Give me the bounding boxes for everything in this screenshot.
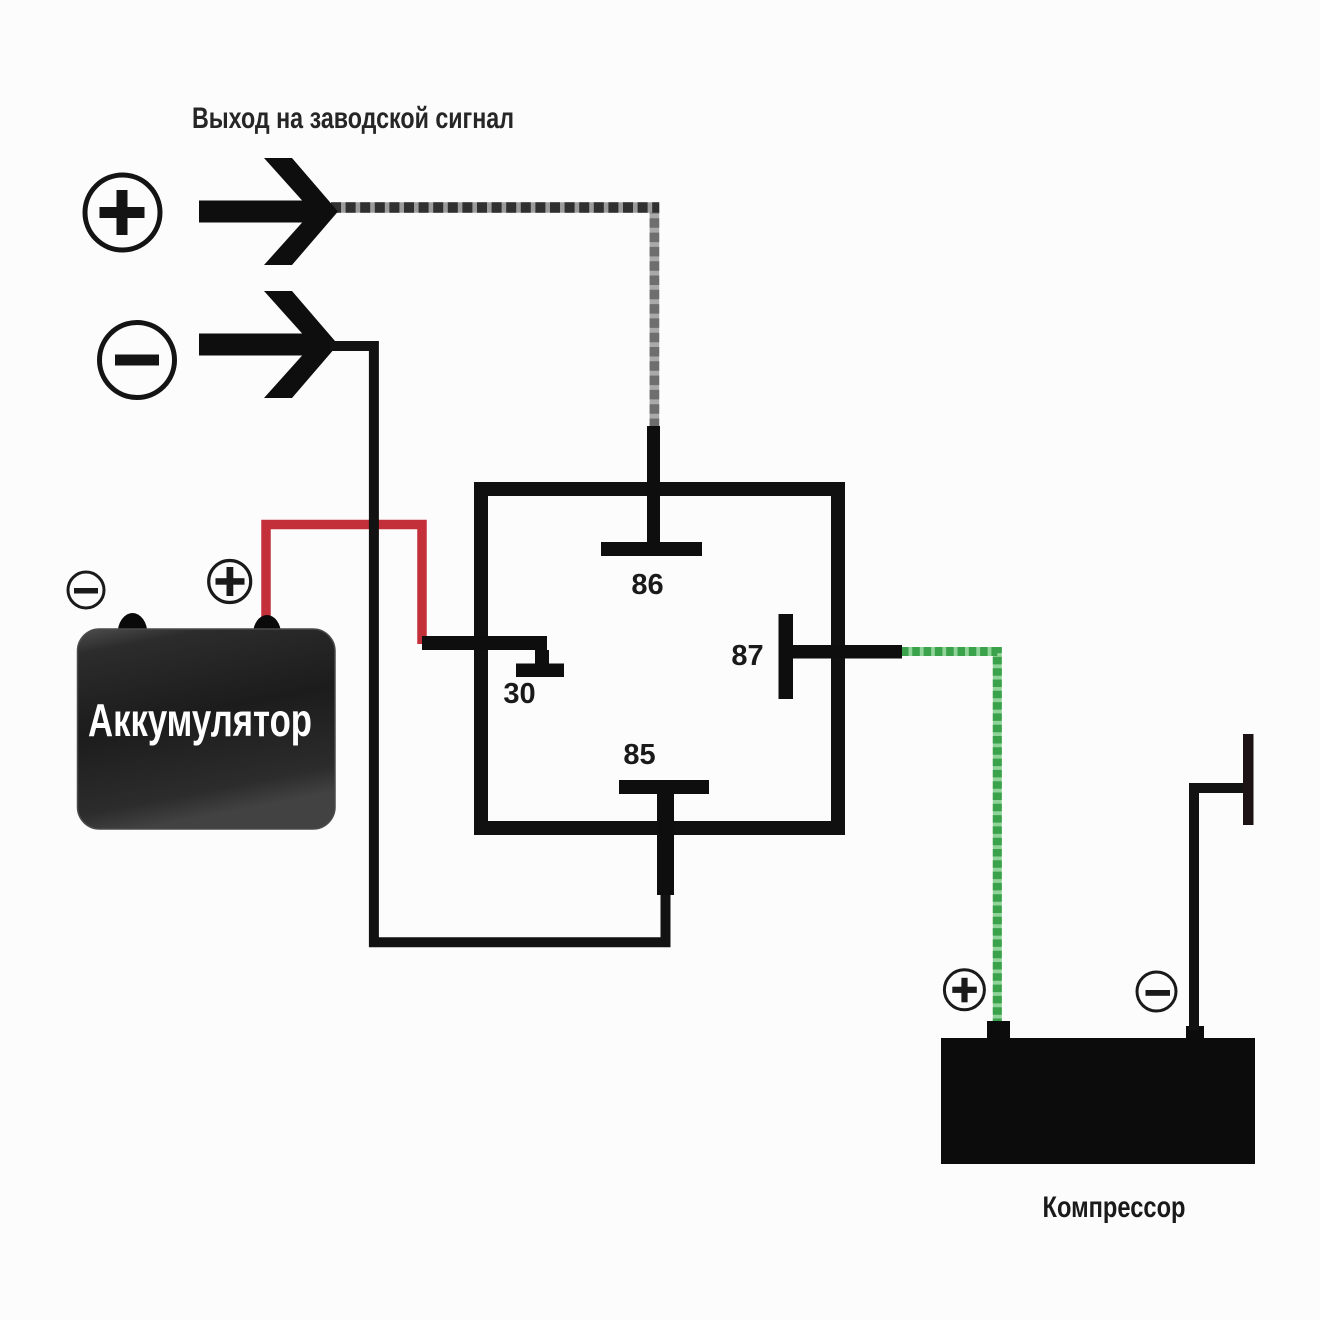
svg-text:Аккумулятор: Аккумулятор: [88, 694, 312, 746]
svg-text:30: 30: [503, 678, 535, 710]
svg-text:Компрессор: Компрессор: [1043, 1191, 1186, 1224]
svg-text:87: 87: [731, 640, 763, 672]
svg-text:Выход на заводской сигнал: Выход на заводской сигнал: [192, 102, 514, 135]
svg-text:85: 85: [623, 739, 655, 771]
svg-text:86: 86: [631, 569, 663, 601]
